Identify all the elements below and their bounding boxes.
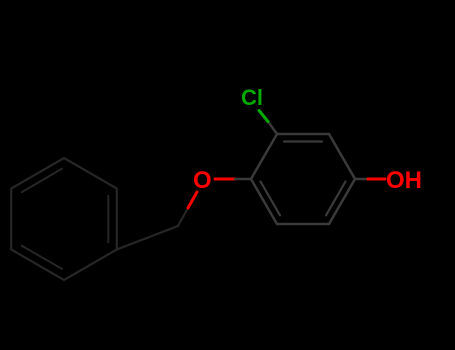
right ring inner double bond lower-left xyxy=(261,182,281,216)
bond O-ring red half xyxy=(215,178,235,181)
left ring inner double bond 2 xyxy=(22,246,62,269)
left ring inner double bond 1 xyxy=(107,196,109,242)
right benzene ring outline xyxy=(251,134,355,224)
left ring inner double bond 3 xyxy=(22,169,62,193)
right ring inner double bond lower-right xyxy=(326,182,346,216)
bond O-CH2 red half xyxy=(188,192,197,208)
bond CH2 to left ring xyxy=(117,226,178,250)
bond ring-OH dark half xyxy=(355,178,368,181)
bond O-ring dark half xyxy=(235,178,251,181)
svg-text:O: O xyxy=(193,167,212,194)
bond O-CH2 dark half xyxy=(178,208,188,226)
bond ring-OH red half xyxy=(368,178,385,181)
bond ring-Cl dark half xyxy=(268,122,277,135)
svg-text:Cl: Cl xyxy=(241,85,263,110)
right ring inner double bond top xyxy=(284,140,322,142)
bond ring-Cl green half xyxy=(259,111,268,122)
svg-text:OH: OH xyxy=(386,167,422,194)
left benzene ring outline xyxy=(11,158,117,280)
